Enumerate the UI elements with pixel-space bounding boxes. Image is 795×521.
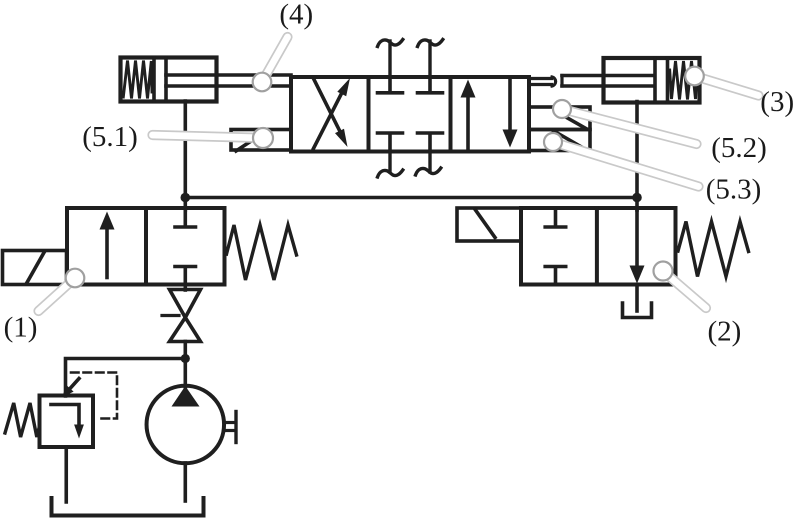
bubble (1) xyxy=(66,269,85,288)
V2 divider xyxy=(595,208,599,285)
V1 return spring xyxy=(227,225,297,280)
RV pilot dashed line xyxy=(71,373,117,419)
RV internal flow arrow xyxy=(51,405,79,428)
bubble (5.3) xyxy=(544,133,562,151)
bubble (4) xyxy=(253,73,272,92)
RV pilot arrow xyxy=(71,379,80,389)
U1 centre position blocked port bottom-left xyxy=(388,135,392,150)
pump P1 circle xyxy=(147,386,225,464)
pilot cylinder right spring xyxy=(670,61,697,100)
V1 solenoid xyxy=(3,251,67,285)
pilot operator 5.3 box xyxy=(529,130,590,151)
wire: shut-off to pump node xyxy=(184,342,188,359)
svg-text:(4): (4) xyxy=(279,0,313,31)
wire: left pilot drop line xyxy=(184,101,188,198)
pilot operator 5.1 box xyxy=(231,130,291,151)
V1 flow arrow xyxy=(105,225,109,278)
pilot cylinder left piston xyxy=(152,58,156,102)
directional valve U1 main box xyxy=(291,77,529,152)
U1 left position crossed arrows xyxy=(314,79,343,136)
wire: junction to pump xyxy=(184,359,188,388)
svg-text:(5.2): (5.2) xyxy=(711,132,767,164)
wire: V2 drain xyxy=(635,285,639,312)
wire: valve V1 top connection xyxy=(184,198,188,211)
svg-text:(2): (2) xyxy=(707,316,741,348)
U1 right position up arrow xyxy=(466,93,470,149)
U1 right position down arrow xyxy=(508,79,512,133)
tank symbol T2 xyxy=(623,303,652,318)
V2 return spring xyxy=(678,222,749,277)
V1 blocked port top xyxy=(184,210,188,226)
leader (5.2) xyxy=(562,109,697,144)
shut-off valve handle tick xyxy=(162,314,179,317)
svg-text:(5.1): (5.1) xyxy=(82,121,138,153)
U1 centre position blocked port top-right xyxy=(428,79,432,91)
leader (5.1) xyxy=(153,135,264,138)
pilot operator 5.3 diagonal xyxy=(553,131,585,150)
shut-off valve lower triangle xyxy=(170,318,201,342)
V1 divider xyxy=(144,208,148,285)
pilot cylinder left spring xyxy=(123,61,152,99)
pilot cylinder left rod xyxy=(166,73,291,77)
svg-text:(1): (1) xyxy=(4,312,38,344)
U1 plugged line stub bottom-right xyxy=(428,152,431,173)
leader (2) xyxy=(663,271,706,308)
svg-text:(5.3): (5.3) xyxy=(706,174,762,206)
wire: right pilot drop line xyxy=(635,102,639,198)
U1 plugged line stub top-left xyxy=(388,41,391,77)
bubble (2) xyxy=(654,262,673,281)
bubble (5.1) xyxy=(253,128,273,148)
bubble (5.2) xyxy=(553,100,571,118)
V2 flow arrow down xyxy=(635,210,639,268)
U1 plugged line stub top-right xyxy=(428,41,431,77)
node: pressure junction xyxy=(181,354,190,363)
U1 spool pin stub right xyxy=(529,77,552,80)
V2 solenoid xyxy=(457,208,521,241)
pilot operator 5.1 diagonal xyxy=(236,131,267,152)
V2 blocked port bottom xyxy=(545,265,566,269)
tank T1 xyxy=(52,498,204,516)
leader (1) xyxy=(39,278,76,311)
callout leaders and bubbles xyxy=(39,37,759,311)
U1 centre position blocked port bottom-right xyxy=(428,135,432,150)
pilot operator 5.2 diagonal xyxy=(556,112,586,129)
pilot operator 5.2 box xyxy=(529,107,590,130)
pilot cylinder right piston xyxy=(653,58,657,103)
bubble (3) xyxy=(685,67,704,86)
svg-text:(3): (3) xyxy=(760,86,794,118)
RV spring xyxy=(5,403,40,437)
leader (5.3) xyxy=(553,142,699,187)
shut-off valve upper triangle xyxy=(170,290,201,318)
directional valve U1 dividers xyxy=(367,77,371,152)
pilot cylinder right (3) body xyxy=(604,58,700,103)
leader (4) xyxy=(262,37,288,82)
pump shaft xyxy=(224,421,235,424)
leader (3) xyxy=(695,76,759,96)
pilot cylinder right rod xyxy=(560,76,563,87)
wire: RV drain to tank xyxy=(64,447,68,502)
wire: branch to relief valve xyxy=(66,359,186,397)
node: pilot rail left junction xyxy=(181,193,191,203)
solenoid valve V1 box xyxy=(67,208,225,285)
U1 centre position blocked port top-left xyxy=(388,79,392,91)
V2 blocked port top xyxy=(554,210,558,226)
wire: pilot rail xyxy=(185,196,637,200)
U1 plugged line stub bottom-left xyxy=(388,152,391,173)
pilot cylinder left (4) body xyxy=(121,58,217,102)
node: pilot rail right junction xyxy=(632,193,642,203)
wire: pump suction xyxy=(184,463,188,501)
wire: valve V2 top connection xyxy=(635,198,639,211)
pump P1 outlet triangle xyxy=(172,386,200,407)
wire: V1 bottom connection xyxy=(184,285,188,291)
solenoid valve V2 box xyxy=(521,208,676,285)
V1 blocked port bottom xyxy=(175,265,196,269)
relief valve RV box xyxy=(40,396,94,448)
